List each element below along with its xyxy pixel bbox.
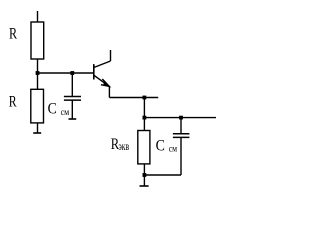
resistor R3 Rekv: [138, 131, 150, 164]
transistor Q1 emitter arrowhead: [101, 79, 109, 86]
svg-text:см: см: [61, 106, 70, 117]
transistor Q1 base bar: [93, 64, 95, 79]
svg-text:экв: экв: [119, 141, 130, 154]
transistor Q1 emitter diagonal: [94, 75, 109, 86]
node capacitor C1 tap: [70, 71, 74, 75]
wire R2 bottom lead: [37, 123, 39, 133]
wire base node horizontal: [38, 72, 94, 74]
svg-text:см: см: [169, 143, 178, 154]
wire emitter bend down: [108, 86, 110, 97]
svg-text:R: R: [9, 25, 17, 43]
wire R1 bottom to base node: [37, 59, 39, 73]
svg-text:C: C: [48, 101, 57, 118]
node base junction left: [36, 71, 40, 75]
resistor R2: [31, 89, 44, 123]
node C2 tap: [179, 116, 183, 120]
wire collector lead up: [110, 50, 112, 61]
ground terminal bar under R2: [33, 132, 41, 134]
wire C1 top lead: [71, 73, 73, 97]
wire output horizontal: [144, 117, 216, 119]
node output junction: [143, 116, 147, 120]
svg-text:R: R: [9, 93, 17, 111]
node emitter junction: [143, 96, 147, 100]
wire C2 top lead: [180, 118, 182, 134]
wire emitter horizontal: [109, 97, 158, 99]
ground terminal bar bottom: [140, 185, 149, 187]
wire base node to R2: [37, 73, 39, 89]
transistor Q1 collector diagonal: [94, 61, 110, 67]
wire ground lead: [143, 175, 145, 186]
resistor R1: [31, 22, 44, 59]
wire C1 bottom lead: [71, 100, 73, 119]
capacitor C2 plates: [173, 133, 190, 135]
svg-text:C: C: [156, 138, 165, 155]
wire R3 top lead: [143, 118, 145, 131]
capacitor C1 plates: [64, 96, 81, 98]
wire top supply lead: [37, 11, 39, 22]
node ground junction: [143, 173, 147, 177]
wire emitter junction down: [143, 98, 145, 118]
ground terminal bar under C1: [69, 118, 77, 120]
wire bottom horizontal to ground node: [144, 174, 181, 176]
wire R3 bottom lead: [143, 164, 145, 175]
wire C2 bottom lead: [180, 137, 182, 175]
